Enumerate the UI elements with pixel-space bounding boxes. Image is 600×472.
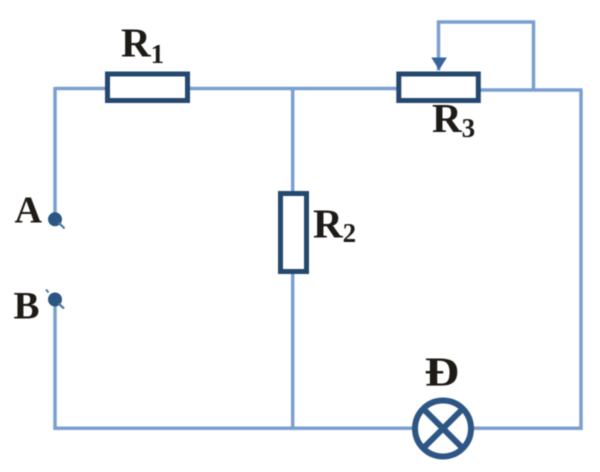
svg-text:B: B [14, 285, 40, 328]
wire: left vertical from terminal B down to bottom-left corner [53, 306, 57, 429]
wire: middle vertical from top junction through R2 to bottom [291, 89, 295, 429]
wire: bottom horizontal from bottom-left corner to lamp [53, 427, 414, 431]
wire: R1 right to middle junction to R3 left [188, 87, 398, 91]
svg-text:R1: R1 [121, 20, 164, 70]
terminal A node [48, 212, 65, 228]
svg-text:A: A [15, 190, 43, 232]
resistor R2 [281, 194, 307, 272]
wire: left vertical from top corner down to terminal A [53, 87, 57, 214]
wire: right vertical side [579, 90, 583, 430]
potentiometer R3 [399, 74, 479, 101]
svg-text:Đ: Đ [425, 349, 460, 395]
wire: top-left horizontal from left corner to R1 [55, 87, 108, 91]
wire: R3 right to top-right corner [479, 88, 583, 92]
svg-text:R2: R2 [313, 201, 356, 249]
resistor R1 [108, 74, 188, 101]
wire: lamp right to bottom-right corner [472, 427, 583, 431]
wiper arrow of R3 [431, 58, 447, 71]
terminal B node [46, 290, 64, 309]
lamp D [415, 401, 471, 457]
wire: wiper loop over R3 [439, 22, 534, 90]
